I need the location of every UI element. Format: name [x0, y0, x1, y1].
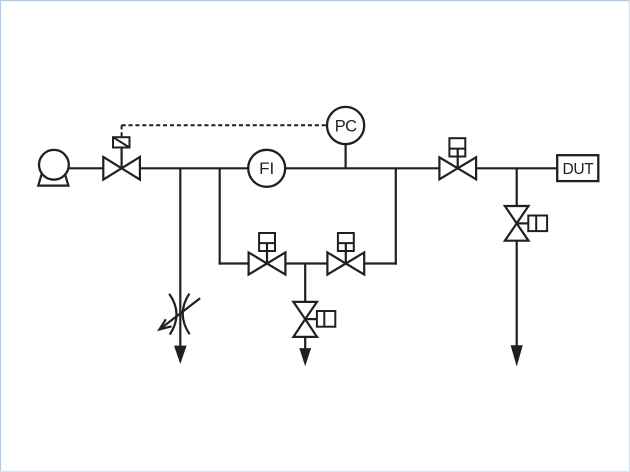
- svg-text:FI: FI: [259, 159, 274, 178]
- dashed signal line horizontal to PC: [122, 124, 327, 126]
- valve V1 solenoid actuator box: [113, 137, 130, 147]
- wire branch down at node x517: [516, 168, 518, 206]
- pump P1: [38, 150, 69, 186]
- valve V3 body: [327, 252, 364, 274]
- valve V5 stem: [457, 149, 459, 169]
- variable restrictor arcs: [169, 294, 189, 335]
- border frame bottom: [0, 470, 630, 472]
- wire parallel line left segment: [219, 262, 249, 264]
- pressure controller PC: [327, 107, 364, 144]
- wire V6 to vent: [516, 241, 518, 347]
- valve V4 body vertical: [293, 302, 317, 337]
- wire parallel line mid segment: [285, 262, 327, 264]
- valve V1 body: [103, 157, 140, 180]
- valve V6 body vertical: [505, 206, 529, 241]
- wire main line FI to valve V5: [285, 167, 439, 169]
- vent arrow right: [511, 345, 523, 366]
- valve V2 stem: [266, 243, 268, 263]
- wire branch down at node x396: [395, 168, 397, 264]
- vent arrow left: [174, 346, 187, 364]
- border frame left: [0, 0, 2, 472]
- svg-text:DUT: DUT: [562, 161, 594, 178]
- flow indicator FI: [248, 150, 285, 187]
- border frame right: [628, 0, 630, 472]
- valve V3 stem: [345, 243, 347, 263]
- wire branch down at node x220: [219, 168, 221, 264]
- vent arrow middle: [299, 348, 311, 366]
- wire main line V1 to FI: [140, 167, 248, 169]
- wire PC stem to main line: [345, 144, 347, 168]
- variable restrictor arrow: [159, 298, 200, 329]
- DUT box: [557, 155, 598, 181]
- valve V4 stem: [305, 318, 317, 320]
- wire branch down at node x305: [304, 264, 306, 302]
- wire main line pump to valve V1: [66, 167, 103, 169]
- valve V1 stem: [120, 147, 122, 168]
- valve V3 actuator box: [338, 233, 354, 251]
- valve V2 actuator box: [259, 233, 275, 251]
- dashed signal line vertical from V1 actuator: [121, 125, 123, 136]
- valve V5 actuator box: [449, 138, 465, 156]
- wire branch down at node x180: [179, 168, 181, 346]
- border frame top: [0, 0, 630, 2]
- wire main line V5 to DUT: [476, 167, 557, 169]
- valve V4 actuator box: [317, 311, 335, 327]
- valve V6 actuator box: [528, 216, 547, 232]
- valve V5 body: [439, 157, 476, 179]
- svg-text:PC: PC: [335, 117, 357, 135]
- wire parallel line right segment: [364, 262, 397, 264]
- wire V4 to vent: [304, 337, 306, 350]
- valve V6 stem: [517, 222, 529, 224]
- valve V2 body: [249, 252, 286, 274]
